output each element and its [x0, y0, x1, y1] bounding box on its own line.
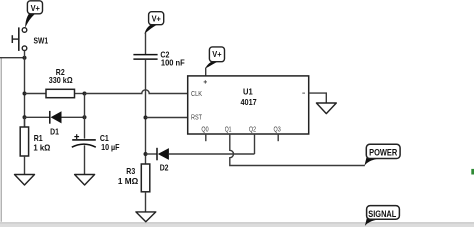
svg-text:D2: D2 [160, 163, 169, 172]
junction: D1 left [23, 115, 27, 119]
label R1 value 1 kΩ [33, 144, 50, 153]
pin mark + (V+ pin) [204, 80, 207, 83]
V+ flag (above SW1) [25, 1, 42, 28]
POWER net flag [364, 144, 400, 166]
label 4017 [241, 97, 257, 107]
label C2 value 100 nF [161, 58, 185, 67]
resistor R2 [25, 89, 85, 97]
label R3 value 1 MΩ [118, 177, 139, 186]
ground (R1) [15, 175, 35, 186]
pin label Q3 [274, 124, 281, 133]
label R1 [34, 134, 43, 143]
pin label Q2 [249, 124, 256, 133]
svg-text:1 kΩ: 1 kΩ [33, 144, 50, 153]
svg-text:1 MΩ: 1 MΩ [118, 177, 139, 186]
ground (U1) [316, 103, 336, 114]
V+ flag (above C2) [145, 12, 164, 34]
pin label CLK [191, 89, 202, 98]
junction: RST tap [144, 116, 148, 120]
svg-text:Q1: Q1 [225, 124, 232, 133]
wire: Q1 down (hop over D2 line) then right to POWER [230, 134, 365, 166]
pin label RST [191, 113, 202, 122]
label R2 value 330 kΩ [49, 76, 73, 85]
SIGNAL net flag [365, 206, 400, 226]
junction: R2 right / C1 branch [83, 92, 87, 96]
svg-text:RST: RST [191, 113, 202, 122]
svg-text:R1: R1 [34, 134, 43, 143]
wire: C2 down through RST to D2/R3 [145, 60, 147, 164]
capacitor C2 [133, 55, 157, 60]
label C1 [100, 134, 109, 143]
wire: U1 gnd pin to ground [309, 93, 327, 103]
pushbutton SW1 [12, 27, 27, 57]
resistor R3 [141, 164, 150, 212]
svg-text:Q0: Q0 [201, 124, 208, 133]
label C1 value 10 µF [101, 143, 119, 152]
junction: D1 right [83, 115, 87, 119]
wire: RST net [146, 117, 188, 119]
label D1 [50, 128, 59, 137]
label U1 [243, 87, 253, 97]
capacitor C1 (polarized) [72, 134, 96, 174]
svg-text:SIGNAL: SIGNAL [368, 209, 396, 220]
svg-text:R3: R3 [126, 167, 135, 176]
svg-text:POWER: POWER [369, 148, 397, 159]
pin mark - (gnd pin) [302, 92, 305, 94]
svg-text:SW1: SW1 [34, 36, 49, 45]
svg-text:330 kΩ: 330 kΩ [49, 76, 73, 85]
wire: vertical R2 right to C1 [84, 94, 86, 139]
label R2 [56, 68, 65, 77]
pin label Q1 [225, 124, 232, 133]
svg-text:V+: V+ [152, 15, 161, 24]
svg-text:C1: C1 [100, 134, 109, 143]
wire: V+ rail horizontal to left edge [0, 57, 25, 59]
label D2 [160, 163, 169, 172]
diode D1 [25, 111, 85, 124]
wire: off-canvas gray vertical at left edge [0, 58, 2, 222]
wire: left vertical bus (SW1 to R1) [24, 58, 26, 127]
ground (C1) [75, 175, 95, 186]
svg-text:CLK: CLK [191, 89, 202, 98]
svg-text:Q3: Q3 [274, 124, 281, 133]
pin label Q0 [201, 124, 208, 133]
ground (R3) [136, 212, 156, 222]
pin stub Q3 [277, 134, 279, 141]
wire: CLK net from R2 to U1 with hop over C2 wire [85, 90, 188, 94]
junction: R2 left [23, 92, 27, 96]
svg-text:V+: V+ [31, 4, 40, 13]
connection handle (green) [471, 169, 474, 175]
pin stub Q0 [205, 134, 207, 141]
svg-text:4017: 4017 [241, 97, 257, 107]
svg-text:10 µF: 10 µF [101, 143, 119, 152]
resistor R1 [20, 117, 28, 174]
label C2 [160, 51, 169, 60]
IC U1 4017 box [188, 76, 309, 134]
svg-text:U1: U1 [243, 87, 253, 97]
V+ flag (U1 supply) [205, 47, 224, 76]
junction: D2 / R3 tap [144, 152, 148, 156]
junction: SW1 bottom / V+ rail [23, 56, 27, 60]
diode D2 [146, 148, 255, 161]
svg-text:D1: D1 [50, 128, 59, 137]
label SW1 [34, 36, 49, 45]
label R3 [126, 167, 135, 176]
wire: D2 line up to Q2 [254, 134, 256, 154]
svg-text:100 nF: 100 nF [161, 58, 185, 67]
svg-text:Q2: Q2 [249, 124, 256, 133]
wire: V+ flag to C2 [145, 33, 147, 55]
svg-text:V+: V+ [212, 50, 221, 59]
